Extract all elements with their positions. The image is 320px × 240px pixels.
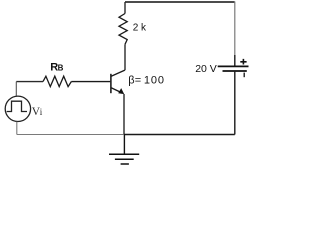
wire base right segment	[71, 81, 110, 83]
wire right rail upper (top rail to battery +)	[234, 2, 236, 56]
resistor RB	[43, 76, 71, 86]
svg-text:Vi: Vi	[32, 106, 43, 118]
wire right rail above battery (dark)	[234, 55, 236, 66]
wire collector stub bottom	[124, 44, 126, 70]
resistor 2k	[119, 14, 127, 45]
transistor Q1 base bar	[110, 74, 112, 93]
svg-text:β: β	[128, 75, 134, 87]
wire base left segment	[16, 81, 43, 83]
wire source bottom	[16, 122, 18, 135]
ground bar 2	[115, 158, 134, 160]
source Vi circle	[5, 96, 30, 121]
svg-text:=: =	[135, 75, 141, 87]
wire bottom rail left	[17, 134, 124, 136]
source Vi pulse waveform	[7, 101, 27, 111]
ground bar 1	[109, 153, 139, 155]
wire source top	[15, 82, 17, 96]
wire collector stub top	[124, 2, 126, 14]
transistor Q1 emitter lead with arrow	[111, 88, 122, 93]
wire emitter down	[123, 94, 125, 135]
ground stem	[123, 135, 125, 155]
battery V1 top plate	[218, 65, 249, 67]
wire top rail	[125, 1, 235, 3]
ground bar 3	[121, 163, 129, 165]
svg-text:100: 100	[144, 75, 165, 87]
battery plus sign	[240, 59, 246, 65]
svg-text:2 k: 2 k	[133, 23, 147, 34]
battery V1 bottom plate	[223, 70, 247, 72]
svg-text:20 V: 20 V	[195, 63, 217, 75]
transistor Q1 collector lead	[111, 70, 125, 76]
wire right rail lower (battery - to bottom rail)	[234, 71, 236, 135]
battery minus tick	[243, 73, 245, 78]
svg-text:RB: RB	[50, 62, 63, 74]
wire bottom rail right	[124, 134, 235, 136]
